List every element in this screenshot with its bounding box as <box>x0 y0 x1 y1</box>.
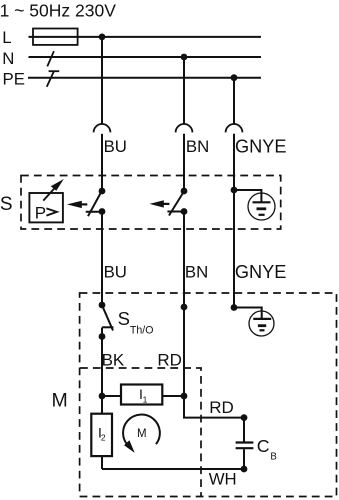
winding I2 <box>91 414 112 456</box>
box M dashed <box>80 293 337 497</box>
connector socket BU <box>94 124 111 132</box>
svg-text:GNYE: GNYE <box>235 136 287 156</box>
svg-text:M: M <box>52 390 68 412</box>
svg-text:GNYE: GNYE <box>235 262 287 282</box>
connector socket GNYE <box>226 124 243 132</box>
node BN terminal <box>181 304 188 311</box>
node BK junction <box>99 393 106 400</box>
wire N bus <box>29 56 262 58</box>
box S dashed <box>21 176 281 230</box>
svg-text:Th/O: Th/O <box>130 324 154 336</box>
node GNYE in S <box>231 187 238 194</box>
svg-text:PE: PE <box>3 69 25 88</box>
wire BK down to I2 <box>101 396 103 414</box>
inner dashed box (stator) <box>80 368 201 497</box>
wire I2 to bottom <box>101 456 103 469</box>
wire BN switch to motor <box>183 212 185 397</box>
svg-text:P: P <box>35 204 46 223</box>
motor M rotation arc <box>123 415 160 447</box>
wire to M ground <box>234 308 262 319</box>
wire PE bus <box>28 77 261 79</box>
node RD junction <box>181 393 188 400</box>
arrow actuate switch 2 <box>150 200 164 207</box>
svg-text:S: S <box>118 308 130 329</box>
wire BU drop upper <box>101 37 103 124</box>
svg-text:N: N <box>2 49 14 68</box>
svg-text:BN: BN <box>185 263 208 282</box>
svg-text:1 ~ 50Hz 230V: 1 ~ 50Hz 230V <box>0 0 116 20</box>
node N tap <box>181 54 188 61</box>
wire RD down <box>184 396 244 418</box>
node cap bottom <box>241 466 248 473</box>
svg-text:L: L <box>2 28 11 47</box>
wire cap to bottom <box>243 449 245 469</box>
svg-text:S: S <box>0 194 12 215</box>
node L tap <box>99 34 106 41</box>
N conductor slash <box>47 51 54 66</box>
wire bottom WH <box>102 468 244 470</box>
ground (earth) symbol M box <box>249 311 274 336</box>
PE conductor slash with bar <box>47 71 54 87</box>
ground (earth) symbol S box <box>248 193 275 220</box>
svg-text:1: 1 <box>143 394 148 404</box>
svg-text:BN: BN <box>186 137 209 156</box>
wire BK to I1 <box>102 395 121 397</box>
arrow actuate switch 1 <box>67 201 82 208</box>
connector socket BN <box>176 124 193 132</box>
node cap top <box>241 414 248 421</box>
switch contact 1 (BU) <box>99 188 106 195</box>
wire GNYE drop upper <box>233 78 235 125</box>
switch contact 2 (BN) <box>181 188 188 195</box>
fuse F on L <box>33 29 78 45</box>
wire L bus <box>29 36 262 38</box>
wire BU plug to switch <box>101 134 103 191</box>
wire GNYE plug down <box>233 134 235 308</box>
wire BN plug to switch <box>183 134 185 191</box>
svg-text:C: C <box>257 436 270 456</box>
svg-text:M: M <box>137 428 147 440</box>
svg-text:2: 2 <box>101 433 106 443</box>
wire BU switch to motor <box>101 212 103 306</box>
winding I1 <box>121 385 162 405</box>
thermal switch S_Th/O <box>99 302 106 309</box>
wire BN drop upper <box>183 57 185 124</box>
node GNYE terminal <box>231 304 238 311</box>
svg-text:BU: BU <box>104 263 127 282</box>
wire to capacitor <box>243 418 245 442</box>
arrow adjust P> <box>43 188 54 200</box>
svg-text:BU: BU <box>104 137 127 156</box>
svg-text:B: B <box>270 452 276 463</box>
wire to S ground <box>234 190 261 202</box>
node PE tap <box>231 74 238 81</box>
pressure switch P> box <box>29 193 63 222</box>
wire I1 to RD <box>162 395 184 397</box>
svg-text:BK: BK <box>102 350 125 369</box>
svg-text:RD: RD <box>209 398 234 417</box>
svg-text:WH: WH <box>209 470 237 489</box>
capacitor CB <box>236 441 254 443</box>
svg-text:RD: RD <box>157 350 182 369</box>
